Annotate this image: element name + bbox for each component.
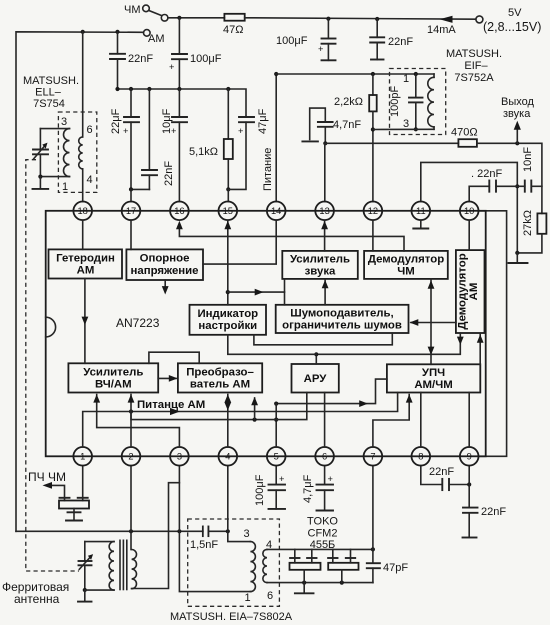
svg-text:100μF: 100μF: [254, 474, 266, 506]
svg-text:22nF: 22nF: [163, 161, 175, 186]
capacitor 22nF (right): [488, 181, 490, 192]
junction: [274, 72, 278, 76]
wire: indicator to AGC line: [228, 335, 316, 355]
svg-text:14mA: 14mA: [427, 24, 456, 36]
block audio amplifier: [282, 251, 358, 279]
svg-text:MATSUSH.: MATSUSH.: [446, 48, 502, 60]
svg-text:4,7μF: 4,7μF: [302, 474, 314, 503]
wire: reference to pin14: [203, 220, 276, 264]
pin 8: [412, 447, 431, 466]
svg-text:22nF: 22nF: [481, 506, 506, 518]
pin 12: [364, 202, 383, 221]
junction: [302, 581, 306, 585]
wire: IF amp to AM demod: [479, 334, 481, 364]
wire: AM rail y=31.8: [16, 32, 144, 532]
wire: FM demod to IF amp: [430, 279, 432, 364]
svg-text:6: 6: [322, 452, 327, 462]
svg-text:настройки: настройки: [198, 320, 257, 332]
svg-text:5: 5: [274, 452, 279, 462]
svg-text:47pF: 47pF: [383, 562, 408, 574]
audio output arrow: [516, 128, 518, 143]
pin 9: [460, 447, 479, 466]
ground (antenna): [84, 590, 86, 601]
svg-text:1: 1: [62, 181, 68, 193]
pin 7: [364, 447, 383, 466]
switch FM (ЧМ) terminal: [143, 5, 150, 12]
svg-text:напряжение: напряжение: [130, 265, 198, 277]
pin 13: [315, 202, 334, 221]
junction: [38, 175, 42, 179]
wire: pin15 branch to noise suppressor: [228, 292, 285, 305]
svg-text:Питание: Питание: [262, 148, 274, 191]
svg-text:455Б: 455Б: [310, 539, 336, 551]
junction: [129, 87, 133, 91]
filter element 1: [290, 563, 321, 570]
svg-text:АМ: АМ: [77, 265, 95, 277]
svg-text:УПЧ: УПЧ: [422, 367, 445, 379]
svg-text:22nF: 22nF: [128, 53, 153, 65]
resistor 5.1k: [227, 89, 229, 139]
junction: [129, 529, 133, 533]
junction: [147, 87, 151, 91]
wire: AM demod to AGC: [316, 333, 460, 364]
svg-text:100μF: 100μF: [276, 35, 308, 47]
RIGHT SECTION: [274, 48, 546, 456]
svg-text:5,1kΩ: 5,1kΩ: [189, 146, 218, 158]
wire: IF amp to pin9: [468, 393, 470, 448]
junction: [414, 72, 418, 76]
IC AN7223 body: [46, 211, 486, 456]
junction: [253, 418, 257, 422]
arrow: FM IF output: [50, 485, 65, 497]
svg-text:+: +: [279, 474, 284, 484]
svg-text:АМ/ЧМ: АМ/ЧМ: [414, 379, 452, 391]
dashed gang-tuning link: [26, 160, 79, 571]
5V terminal: [476, 16, 483, 23]
ground (4.7nF): [302, 140, 318, 142]
svg-text:2,2kΩ: 2,2kΩ: [334, 96, 363, 108]
junction: [467, 482, 471, 486]
capacitor 22nF (top left): [117, 32, 119, 54]
wire: pin18 to oscillator: [82, 220, 84, 249]
svg-text:звука: звука: [305, 266, 336, 278]
ferrite antenna tuning capacitor: [84, 542, 86, 561]
filter ground: [303, 583, 305, 593]
pin 3: [170, 447, 189, 466]
svg-text:12: 12: [368, 206, 378, 216]
svg-text:6: 6: [87, 124, 93, 136]
svg-text:6: 6: [267, 590, 273, 602]
block AGC: [292, 364, 339, 393]
svg-text:3: 3: [244, 528, 250, 540]
capacitor 4.7nF: [310, 108, 326, 139]
pin 5: [267, 447, 286, 466]
pin 1: [73, 447, 92, 466]
block IF amplifier AM/FM: [387, 364, 480, 392]
wire: feedback line to pin 16: [179, 229, 404, 251]
wire: top supply rail y=18: [168, 17, 224, 19]
svg-text:470Ω: 470Ω: [451, 127, 478, 139]
IC notch: [46, 317, 56, 337]
capacitor 4.7uF (pin 6): [324, 466, 326, 485]
svg-text:13: 13: [319, 206, 329, 216]
wire: power line pin14 column: [275, 74, 277, 202]
svg-text:47μF: 47μF: [257, 108, 269, 134]
ground under pin 11: [420, 220, 422, 227]
block reference voltage: [126, 249, 203, 280]
junction: [226, 87, 230, 91]
wire: pin12 to FM demod: [372, 220, 374, 251]
svg-text:4,7nF: 4,7nF: [333, 119, 361, 131]
arrow: noise suppressor to audio amp: [324, 280, 326, 305]
resistor 470 Ohm: [458, 139, 477, 147]
wire: pin4 down: [227, 466, 229, 532]
arrow: AM demod to noise suppressor: [411, 322, 456, 324]
capacitor 100pF: [415, 74, 417, 98]
svg-text:+: +: [123, 126, 128, 136]
wire: pin17 to reference: [130, 220, 132, 249]
svg-text:100pF: 100pF: [389, 86, 401, 117]
svg-text:CFM2: CFM2: [308, 528, 338, 540]
svg-text:. 22nF: . 22nF: [471, 168, 502, 180]
node: 22nF top: [375, 17, 379, 21]
ground (right divider): [516, 253, 518, 262]
wire: bus y=89: [118, 89, 247, 117]
svg-text:15: 15: [223, 206, 233, 216]
junction: [371, 547, 375, 551]
wire: pin10 to pin9 outer link: [479, 211, 507, 456]
svg-text:8: 8: [418, 452, 423, 462]
MATSUSHITA transformer EIA-7S802A: [188, 519, 280, 606]
wire: pin2 to RF amp: [130, 395, 132, 448]
svg-text:+: +: [328, 474, 333, 484]
junction: [274, 418, 278, 422]
junction: [129, 409, 133, 413]
svg-text:2: 2: [128, 452, 133, 462]
ferrite core: [119, 540, 121, 589]
junction: [414, 127, 418, 131]
wire: indicator to noise suppressor: [254, 333, 392, 345]
svg-text:АМ: АМ: [148, 33, 165, 45]
svg-text:16: 16: [174, 206, 184, 216]
switch lever: [149, 10, 162, 15]
FM discriminator (ceramic resonator): [60, 497, 70, 499]
svg-text:MATSUSH. EIA–7S802A: MATSUSH. EIA–7S802A: [170, 611, 293, 623]
svg-text:18: 18: [78, 206, 88, 216]
junction: [515, 184, 519, 188]
svg-text:22μF: 22μF: [110, 108, 122, 134]
ferrite antenna primary winding: [85, 541, 114, 543]
svg-text:Опорное: Опорное: [140, 253, 190, 265]
arrow: power to converter: [254, 398, 256, 420]
svg-text:1: 1: [80, 452, 85, 462]
wire: RF amp to converter bridge: [149, 352, 199, 363]
svg-text:антенна: антенна: [14, 592, 60, 606]
svg-text:17: 17: [126, 206, 136, 216]
wire: pin15 to indicator: [227, 220, 229, 305]
wire: rail to 5V: [245, 18, 476, 19]
capacitor 100uF (top right): [327, 19, 329, 39]
pin 6: [315, 447, 334, 466]
junction: [226, 529, 230, 533]
svg-text:1,5nF: 1,5nF: [190, 539, 218, 551]
svg-text:ВЧ/АМ: ВЧ/АМ: [95, 379, 132, 391]
wire: bus y=74: [276, 73, 434, 75]
pin 11: [412, 202, 431, 221]
svg-text:7S754: 7S754: [33, 98, 65, 110]
capacitor 22nF (lower): [148, 89, 150, 170]
svg-text:Усилитель: Усилитель: [290, 254, 350, 266]
junction: [83, 588, 87, 592]
svg-text:ПЧ ЧМ: ПЧ ЧМ: [28, 470, 66, 484]
capacitor 22uF: [130, 89, 132, 117]
wire: pin3 down: [178, 466, 180, 532]
svg-text:47Ω: 47Ω: [223, 24, 243, 36]
junction: [371, 72, 375, 76]
block AM demodulator (vertical): [456, 250, 485, 333]
pin 4: [219, 447, 238, 466]
capacitor 47uF: [245, 116, 247, 119]
capacitor 10uF: [178, 89, 180, 117]
svg-text:7S752A: 7S752A: [454, 72, 494, 84]
node: 100uF top: [326, 17, 330, 21]
junction: [274, 402, 278, 406]
svg-text:Шумоподавитель,: Шумоподавитель,: [290, 308, 393, 320]
svg-text:14: 14: [271, 206, 281, 216]
switch pole terminal: [161, 14, 168, 21]
svg-text:3: 3: [403, 118, 409, 130]
junction: [226, 290, 230, 294]
junction: [323, 141, 327, 145]
svg-text:4: 4: [225, 452, 230, 462]
svg-text:Усилитель: Усилитель: [83, 367, 143, 379]
svg-text:звука: звука: [503, 108, 531, 120]
block FM demodulator: [364, 251, 448, 279]
svg-text:Демодулятор: Демодулятор: [457, 253, 469, 329]
svg-text:ELL–: ELL–: [35, 87, 62, 99]
resistor 2.2k: [372, 74, 374, 95]
wire: audio line y=143.3: [325, 142, 458, 144]
junction: [371, 127, 375, 131]
svg-text:ватель АМ: ватель АМ: [190, 379, 250, 391]
svg-text:11: 11: [416, 206, 426, 216]
svg-text:AN7223: AN7223: [116, 316, 160, 330]
wire: pin7 to IF amp: [373, 395, 409, 448]
resistor 47 Ohm: [224, 14, 244, 21]
svg-text:10: 10: [464, 206, 474, 216]
svg-text:5V: 5V: [508, 7, 522, 19]
wire: pin2 down to antenna coil: [130, 466, 132, 550]
capacitor 47pF: [372, 549, 374, 563]
capacitor 22nF (pin 8): [421, 466, 442, 485]
wire: oscillator to RF amp: [84, 279, 86, 364]
svg-text:ЧМ: ЧМ: [397, 266, 415, 278]
ground (ELL tuning cap): [39, 177, 41, 188]
arrow: RF amp to converter: [158, 377, 176, 379]
svg-text:100μF: 100μF: [190, 53, 222, 65]
ELL tuning variable capacitor: [39, 129, 41, 150]
block noise suppressor: [276, 305, 409, 333]
pin 2: [122, 447, 141, 466]
wire: pin3 to RF amp: [97, 395, 180, 448]
capacitor 1.5nF: [202, 527, 204, 537]
svg-text:(2,8...15V): (2,8...15V): [483, 20, 541, 34]
junction: [314, 352, 318, 356]
svg-text:Гетеродин: Гетеродин: [56, 253, 115, 265]
wire: 22uF to pin17 node: [131, 188, 149, 190]
svg-text:10nF: 10nF: [522, 147, 534, 172]
junction: [226, 187, 230, 191]
wire: pin13 to audio amp: [324, 220, 326, 251]
svg-text:+: +: [238, 126, 243, 136]
block RF/AM amplifier: [68, 363, 158, 392]
wire: pin10 to 22nF: [469, 186, 489, 201]
capacitor 100uF (top): [178, 18, 180, 54]
junction: [115, 87, 119, 91]
svg-text:3: 3: [177, 452, 182, 462]
svg-text:22nF: 22nF: [429, 466, 454, 478]
node: switch junction: [177, 16, 181, 20]
svg-text:Преобразо–: Преобразо–: [186, 367, 254, 379]
svg-text:ЧМ: ЧМ: [124, 4, 141, 16]
block AM converter: [178, 363, 262, 392]
svg-text:27kΩ: 27kΩ: [522, 210, 534, 236]
svg-text:Питанце АМ: Питанце АМ: [137, 399, 205, 411]
wire: power branch y=419.6: [131, 393, 307, 420]
svg-text:Выход: Выход: [501, 96, 534, 108]
pin 14: [267, 202, 286, 221]
wire: pin3 jog to antenna secondary: [132, 483, 180, 589]
pin 10: [460, 202, 479, 221]
wire: filter input rail y=549.4: [267, 548, 373, 550]
wire: pin13 column: [324, 143, 326, 201]
junction: [177, 87, 181, 91]
svg-text:MATSUSH.: MATSUSH.: [23, 75, 79, 87]
pin 18: [73, 202, 92, 221]
node: 22nF column on AM rail: [115, 30, 119, 34]
junction: [515, 141, 519, 145]
svg-text:TOKO: TOKO: [307, 516, 338, 528]
svg-text:ограничитель шумов: ограничитель шумов: [282, 320, 402, 332]
wire: rail y=531.3: [16, 530, 228, 532]
pin 17: [122, 202, 141, 221]
svg-text:АРУ: АРУ: [304, 373, 328, 385]
svg-text:10μF: 10μF: [161, 108, 173, 134]
junction: [515, 251, 519, 255]
svg-text:EIF–: EIF–: [464, 60, 488, 72]
wire: IF amp to pin8: [420, 393, 422, 448]
svg-text:+: +: [318, 44, 323, 54]
wire: pin11 loop: [421, 162, 518, 253]
junction: [340, 581, 344, 585]
wire: pin1 to discriminator: [82, 466, 84, 498]
wire: IF input line from pin 5: [276, 379, 387, 404]
pin 15: [219, 202, 238, 221]
svg-text:3: 3: [61, 116, 67, 128]
wire: tank bottom: [373, 128, 434, 130]
capacitor 22nF (top right): [376, 19, 378, 37]
block tuning indicator: [190, 305, 267, 335]
svg-text:+: +: [169, 62, 174, 72]
wire: pin4 to converter: [227, 395, 229, 448]
wire: pin5 column: [275, 404, 277, 447]
svg-text:4: 4: [87, 174, 93, 186]
svg-text:7: 7: [370, 452, 375, 462]
arrow: reference output stub: [164, 280, 166, 287]
IC SECTION: [46, 211, 486, 456]
svg-text:Демодулятор: Демодулятор: [368, 254, 444, 266]
pin 16: [170, 202, 189, 221]
ferrite antenna secondary winding: [132, 550, 137, 589]
svg-text:АМ: АМ: [468, 283, 480, 301]
switch AM terminal: [144, 30, 151, 37]
capacitor 100uF (pin 5): [275, 466, 277, 485]
node: osc coil column on AM rail: [81, 30, 85, 34]
wire: AM power line y=411.5: [83, 393, 398, 448]
wire: pin7 down: [372, 466, 374, 550]
wire: AGC to pin6: [324, 393, 326, 448]
block AM oscillator: [49, 249, 123, 278]
svg-text:9: 9: [467, 452, 472, 462]
capacitor 10nF: [524, 181, 526, 192]
svg-text:1: 1: [403, 73, 409, 85]
BOTTOM SECTION: [2, 466, 506, 623]
resistor 27k: [537, 213, 546, 233]
svg-text:1: 1: [245, 592, 251, 604]
wire: filter bottom rail y=582.6: [267, 582, 373, 584]
capacitor 22nF (pin 9): [468, 466, 470, 508]
svg-text:22nF: 22nF: [388, 36, 413, 48]
ground (pin 9 cap): [468, 513, 470, 537]
wire: pin10 to AM demod: [468, 220, 470, 250]
arrow: current into circuit: [440, 16, 453, 23]
filter element 2: [328, 563, 358, 570]
junction: [129, 187, 133, 191]
svg-text:Индикатор: Индикатор: [197, 308, 258, 320]
EIF coil: [433, 74, 435, 77]
junction: [177, 529, 181, 533]
